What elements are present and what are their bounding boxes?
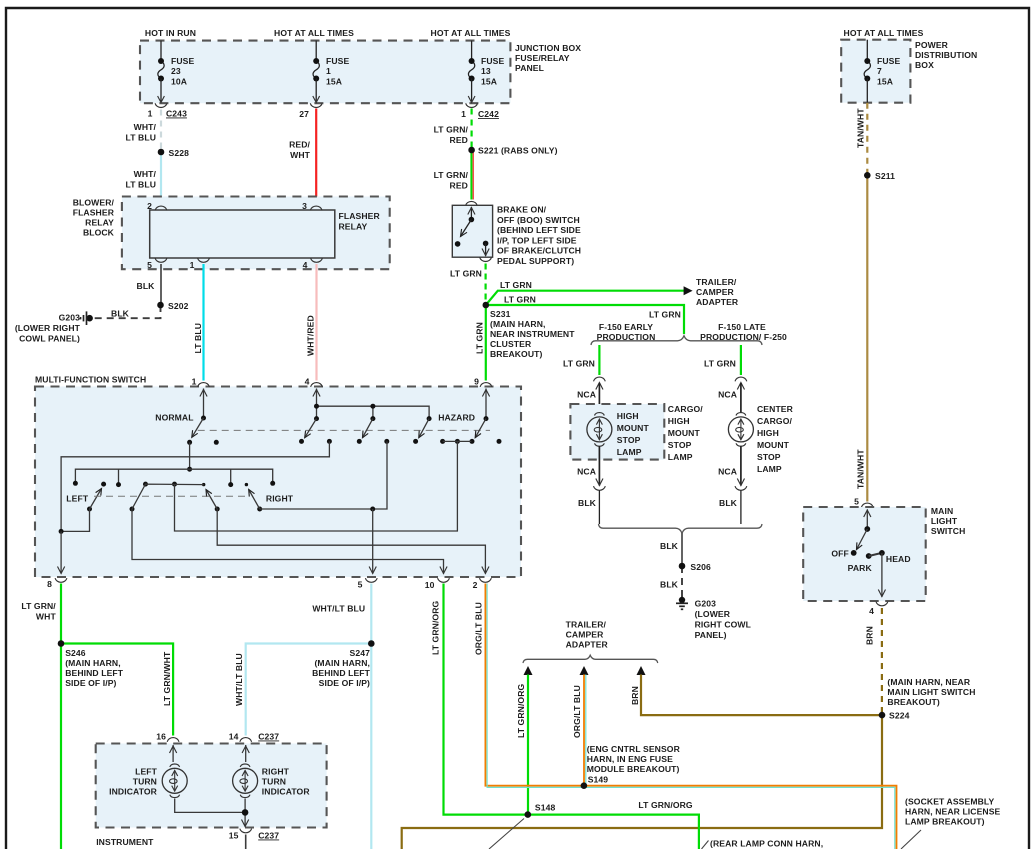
wire cluster pin15 to bottom (245, 835, 247, 849)
MFS hazard switch from pin9 (485, 389, 487, 419)
svg-text:LAMP BREAKOUT): LAMP BREAKOUT) (905, 817, 985, 827)
MFS normal switch from pin1 (203, 389, 205, 419)
F-150 production split brace (591, 336, 762, 345)
MFS pin 8 (55, 578, 67, 582)
svg-text:TRAILER/: TRAILER/ (696, 277, 737, 287)
svg-text:BRN: BRN (630, 686, 640, 705)
wire BRN S224 down and left to bottom (402, 715, 882, 849)
svg-text:LT BLU: LT BLU (125, 133, 156, 143)
wire BLK left lamp to brace (598, 491, 600, 525)
svg-text:LT BLU: LT BLU (125, 180, 156, 190)
wire ORG/LT BLU adapter arrow to S149 (583, 675, 585, 786)
svg-text:F-150 LATE: F-150 LATE (718, 322, 766, 332)
svg-text:LEFT: LEFT (66, 493, 89, 503)
svg-text:C242: C242 (478, 109, 499, 119)
svg-text:MOUNT: MOUNT (668, 428, 701, 438)
MFS wire to pin 8 exit (60, 531, 62, 573)
MFS wire middle to pin10 (132, 509, 444, 574)
svg-text:16: 16 (156, 732, 166, 742)
inline connector (left lamp) (594, 377, 606, 381)
MFS pin 2 (480, 578, 492, 582)
svg-text:BREAKOUT): BREAKOUT) (887, 697, 939, 707)
wire LT GRN to high mount stop lamp (598, 345, 600, 375)
svg-text:STOP: STOP (617, 435, 641, 445)
wire RED/WHT fuse1 to relay pin3 (315, 109, 317, 205)
svg-text:SWITCH: SWITCH (931, 526, 966, 536)
svg-text:C243: C243 (166, 109, 187, 119)
svg-text:PRODUCTION/ F-250: PRODUCTION/ F-250 (700, 332, 787, 342)
cluster pin 15 (240, 829, 252, 833)
svg-text:HARN, IN ENG FUSE: HARN, IN ENG FUSE (587, 754, 673, 764)
svg-text:S211: S211 (875, 171, 895, 181)
splice S149 (581, 782, 588, 789)
brake on/off (BOO) switch (466, 201, 478, 205)
wire WHT/LT BLU S228 to relay pin2 (160, 152, 162, 205)
svg-text:FUSE: FUSE (877, 56, 900, 66)
wire BRN adapter arrow to S224 (641, 675, 882, 716)
svg-text:G203: G203 (59, 313, 81, 323)
svg-text:BLK: BLK (719, 498, 738, 508)
svg-text:NCA: NCA (577, 390, 596, 400)
MFS junction to pin5 (370, 507, 375, 512)
svg-text:S247: S247 (350, 648, 371, 658)
svg-text:FUSE/RELAY: FUSE/RELAY (515, 53, 570, 63)
svg-text:14: 14 (229, 732, 239, 742)
svg-text:(REAR LAMP CONN HARN,: (REAR LAMP CONN HARN, (710, 839, 823, 849)
svg-text:(MAIN HARN,: (MAIN HARN, (490, 319, 546, 329)
svg-text:BRAKE ON/: BRAKE ON/ (497, 205, 547, 215)
svg-text:S206: S206 (690, 562, 711, 572)
wire BLK S202 to G203 (dashed) (92, 305, 161, 318)
svg-text:LT GRN/WHT: LT GRN/WHT (162, 651, 172, 706)
svg-text:RED: RED (450, 135, 468, 145)
svg-text:15A: 15A (481, 77, 497, 87)
wire WHT/LT BLU fuse23 to S228 (160, 110, 162, 153)
svg-text:PEDAL SUPPORT): PEDAL SUPPORT) (497, 256, 574, 266)
svg-text:FLASHER: FLASHER (73, 208, 115, 218)
blower/flasher relay block (122, 197, 390, 270)
svg-text:4: 4 (305, 377, 310, 387)
wire ORG/LT BLU MFS pin2 to S149 line to bottom right (485, 584, 896, 849)
svg-text:CAMPER: CAMPER (566, 630, 605, 640)
svg-text:SIDE OF I/P): SIDE OF I/P) (65, 678, 116, 688)
wire LT GRN/RED S221 to BOO switch (470, 150, 472, 200)
splice S228 (158, 149, 165, 156)
svg-text:S221 (RABS ONLY): S221 (RABS ONLY) (478, 146, 558, 156)
svg-text:(LOWER RIGHT: (LOWER RIGHT (15, 323, 81, 333)
wire LT GRN S231 to trailer/camper adapter arrow (486, 291, 686, 305)
svg-text:BEHIND LEFT: BEHIND LEFT (312, 668, 371, 678)
svg-text:5: 5 (854, 497, 859, 507)
svg-text:15: 15 (229, 831, 239, 841)
svg-text:BLK: BLK (111, 309, 130, 319)
svg-text:FUSE: FUSE (326, 56, 349, 66)
splice S148 (525, 811, 532, 818)
svg-text:23: 23 (171, 66, 181, 76)
left turn indicator lamp (172, 745, 174, 762)
inline connector (left lamp bottom) (596, 479, 603, 486)
wire NCA below left lamp (598, 446, 600, 486)
svg-text:OFF: OFF (831, 549, 848, 559)
svg-text:2: 2 (473, 580, 478, 590)
svg-text:MULTI-FUNCTION SWITCH: MULTI-FUNCTION SWITCH (35, 375, 146, 385)
svg-text:(MAIN HARN,: (MAIN HARN, (314, 658, 370, 668)
wire WHT/LT BLU S247 to bottom edge (370, 644, 372, 849)
svg-text:LT GRN/ORG: LT GRN/ORG (638, 800, 693, 810)
wire LT GRN/WHT S246 to bottom edge (60, 644, 62, 849)
relay pin 2 (155, 206, 167, 210)
svg-text:5: 5 (147, 260, 152, 270)
svg-text:TURN: TURN (133, 777, 157, 787)
MFS wire normal contact to line C (189, 442, 191, 469)
svg-text:HIGH: HIGH (757, 428, 779, 438)
svg-text:WHT: WHT (290, 150, 311, 160)
svg-text:RELAY: RELAY (339, 222, 368, 232)
svg-text:INDICATOR: INDICATOR (109, 787, 158, 797)
MFS wire right switch to contact (260, 441, 387, 509)
splice S206 (679, 563, 686, 570)
svg-text:PANEL): PANEL) (695, 630, 727, 640)
svg-text:MAIN: MAIN (931, 506, 953, 516)
MFS gang dashed line (bottom) (94, 495, 246, 497)
wire WHT/RED relay pin4 to MFS pin4 (315, 264, 317, 381)
svg-text:HIGH: HIGH (668, 416, 690, 426)
MFS wire middle to pin2 (217, 509, 485, 574)
svg-text:WHT: WHT (36, 612, 57, 622)
svg-text:(LOWER: (LOWER (695, 609, 731, 619)
svg-text:POWER: POWER (915, 40, 949, 50)
svg-text:LT GRN/ORG: LT GRN/ORG (516, 683, 526, 738)
svg-text:S148: S148 (535, 803, 556, 813)
multi-function switch box (35, 387, 521, 578)
cluster lamp join wire (175, 799, 245, 813)
svg-text:(MAIN HARN, NEAR: (MAIN HARN, NEAR (887, 677, 970, 687)
svg-text:1: 1 (190, 260, 195, 270)
svg-text:NCA: NCA (577, 467, 596, 477)
svg-text:ADAPTER: ADAPTER (696, 297, 739, 307)
wire LT GRN/RED C242 to S221 (dashed) (471, 109, 473, 151)
svg-text:OF BRAKE/CLUTCH: OF BRAKE/CLUTCH (497, 246, 581, 256)
svg-text:LT GRN: LT GRN (504, 295, 536, 305)
svg-text:1: 1 (192, 377, 197, 387)
svg-text:C237: C237 (258, 732, 279, 742)
svg-text:BRN: BRN (865, 626, 875, 645)
svg-text:WHT/LT BLU: WHT/LT BLU (234, 653, 244, 706)
MFS contact dots row (327, 439, 332, 444)
svg-text:LIGHT: LIGHT (931, 516, 958, 526)
svg-text:BEHIND LEFT: BEHIND LEFT (65, 668, 124, 678)
svg-text:MAIN LIGHT SWITCH: MAIN LIGHT SWITCH (887, 687, 975, 697)
svg-text:8: 8 (47, 579, 52, 589)
svg-text:S224: S224 (889, 711, 910, 721)
svg-text:LT GRN: LT GRN (475, 322, 485, 354)
svg-text:FUSE: FUSE (171, 56, 194, 66)
svg-text:BLK: BLK (137, 281, 156, 291)
main light switch internal (866, 510, 868, 530)
svg-text:PARK: PARK (848, 563, 873, 573)
svg-text:BREAKOUT): BREAKOUT) (490, 349, 542, 359)
MFS pin 9 (480, 383, 492, 387)
svg-text:RIGHT: RIGHT (266, 493, 294, 503)
svg-text:LT GRN/: LT GRN/ (21, 601, 56, 611)
svg-text:WHT/RED: WHT/RED (306, 315, 316, 356)
svg-text:LEFT: LEFT (135, 767, 158, 777)
junction box fuse/relay panel (140, 41, 510, 104)
svg-text:PRODUCTION: PRODUCTION (597, 332, 656, 342)
svg-text:I/P, TOP LEFT SIDE: I/P, TOP LEFT SIDE (497, 235, 577, 245)
MFS wire middle to hazard contact (175, 441, 458, 531)
wire WHT/LT BLU MFS pin5 to S247 (370, 584, 372, 644)
svg-text:INDICATOR: INDICATOR (262, 787, 311, 797)
MFS middle contact structure (130, 507, 135, 512)
splice S202 (157, 302, 164, 309)
instrument cluster box (167, 738, 179, 742)
main light switch pin 4 (876, 602, 888, 606)
flasher relay (150, 210, 335, 258)
stop lamp ground gather brace (599, 524, 763, 533)
right turn indicator lamp (245, 745, 247, 762)
connector C242 pin 1 (466, 103, 478, 107)
MFS pin 1 (198, 383, 210, 387)
fuse 23 10A (160, 41, 162, 61)
svg-text:CAMPER: CAMPER (696, 287, 735, 297)
splice S246 (58, 640, 65, 647)
center cargo/high mount stop lamp (728, 417, 753, 442)
relay pin 3 (310, 206, 322, 210)
splice S247 (368, 640, 375, 647)
svg-text:LT GRN/: LT GRN/ (434, 125, 469, 135)
MFS gang dashed line (top) (198, 429, 490, 431)
relay pin 5 (155, 258, 167, 262)
svg-text:NCA: NCA (718, 467, 737, 477)
svg-text:RIGHT COWL: RIGHT COWL (695, 620, 751, 630)
svg-text:(SOCKET ASSEMBLY: (SOCKET ASSEMBLY (905, 797, 994, 807)
wire LT GRN/ORG MFS pin10 to S148 to bottom (444, 584, 699, 849)
svg-text:BLK: BLK (660, 541, 679, 551)
svg-text:15A: 15A (326, 77, 342, 87)
svg-text:LT GRN: LT GRN (500, 280, 532, 290)
wire BLK relay pin5 to S202 (160, 264, 162, 305)
svg-text:5: 5 (358, 580, 363, 590)
svg-text:MOUNT: MOUNT (617, 423, 650, 433)
svg-text:HOT AT ALL TIMES: HOT AT ALL TIMES (844, 28, 924, 38)
arrow LT GRN/ORG to adapter (524, 666, 533, 675)
relay pin 4 (311, 258, 323, 262)
svg-text:G203: G203 (695, 599, 717, 609)
callout line S148 (489, 819, 524, 849)
svg-text:TRAILER/: TRAILER/ (566, 620, 607, 630)
wire LT BLU relay pin1 to MFS pin1 (202, 264, 204, 381)
svg-text:HAZARD: HAZARD (438, 412, 475, 422)
svg-text:F-150 EARLY: F-150 EARLY (599, 322, 653, 332)
svg-text:JUNCTION BOX: JUNCTION BOX (515, 43, 581, 53)
wire LT GRN S231 to F-150 brace (486, 305, 684, 334)
svg-text:RELAY: RELAY (85, 218, 114, 228)
svg-text:STOP: STOP (668, 440, 692, 450)
wire LT GRN to center stop lamp (740, 345, 742, 375)
svg-text:10: 10 (425, 580, 435, 590)
MFS contact dot (214, 440, 219, 445)
svg-text:LAMP: LAMP (668, 452, 693, 462)
svg-text:STOP: STOP (757, 452, 781, 462)
svg-text:1: 1 (461, 109, 466, 119)
svg-text:LAMP: LAMP (757, 464, 782, 474)
svg-text:WHT/LT BLU: WHT/LT BLU (312, 604, 365, 614)
svg-text:S246: S246 (65, 648, 86, 658)
svg-text:BLOCK: BLOCK (83, 228, 115, 238)
svg-text:OFF (BOO) SWITCH: OFF (BOO) SWITCH (497, 215, 580, 225)
relay pin 1 (198, 258, 210, 262)
svg-text:1: 1 (326, 66, 331, 76)
splice S224 (879, 712, 886, 719)
svg-text:HOT AT ALL TIMES: HOT AT ALL TIMES (274, 28, 354, 38)
svg-text:NEAR INSTRUMENT: NEAR INSTRUMENT (490, 329, 575, 339)
svg-text:CARGO/: CARGO/ (668, 404, 703, 414)
svg-text:S149: S149 (588, 775, 609, 785)
svg-text:27: 27 (299, 109, 309, 119)
svg-text:BLK: BLK (660, 580, 679, 590)
svg-text:S202: S202 (168, 301, 189, 311)
wire BLK S206 to G203 (dashed) (681, 566, 683, 597)
svg-text:CARGO/: CARGO/ (757, 416, 792, 426)
wire TAN/WHT fuse7 to S211 (dashed) (866, 103, 868, 176)
wire BLK brace to S206 (681, 533, 683, 566)
svg-text:S231: S231 (490, 309, 511, 319)
inline connector (right lamp) (735, 377, 747, 381)
svg-text:DISTRIBUTION: DISTRIBUTION (915, 50, 977, 60)
svg-text:C237: C237 (258, 831, 279, 841)
arrow BRN to adapter (637, 666, 646, 675)
wire BRN pin4 to S224 (dashed) (881, 608, 883, 715)
svg-text:NORMAL: NORMAL (155, 412, 193, 422)
svg-text:BLK: BLK (578, 498, 597, 508)
fuse 13 15A (471, 41, 473, 61)
svg-text:BOX: BOX (915, 60, 934, 70)
main light switch box (861, 503, 873, 507)
wire NCA to lamp (598, 383, 600, 413)
connector pin 27 (310, 103, 322, 107)
svg-text:CLUSTER: CLUSTER (490, 339, 532, 349)
svg-text:(BEHIND LEFT SIDE: (BEHIND LEFT SIDE (497, 225, 581, 235)
ground G203 lower right cowl panel (rear) (679, 597, 685, 603)
splice S231 (483, 302, 490, 309)
svg-text:MOUNT: MOUNT (757, 440, 790, 450)
fuse 1 15A (315, 41, 317, 61)
MFS pin 10 (438, 578, 450, 582)
svg-text:WHT/: WHT/ (134, 169, 157, 179)
svg-text:13: 13 (481, 66, 491, 76)
svg-text:S228: S228 (169, 148, 190, 158)
wire NCA to center lamp (740, 383, 742, 413)
svg-text:HEAD: HEAD (886, 554, 911, 564)
svg-text:2: 2 (147, 201, 152, 211)
splice S221 (468, 147, 475, 154)
svg-text:PANEL: PANEL (515, 63, 544, 73)
svg-text:WHT/: WHT/ (134, 122, 157, 132)
svg-text:LT GRN/ORG: LT GRN/ORG (431, 600, 441, 655)
wire LT GRN BOO to S231 (dashed) (485, 264, 487, 306)
svg-text:LT BLU: LT BLU (193, 323, 203, 354)
svg-text:LAMP: LAMP (617, 447, 642, 457)
wire LT GRN S231 to MFS pin9 (485, 305, 487, 381)
svg-text:BLOWER/: BLOWER/ (73, 198, 115, 208)
MFS line B pin8 bus (61, 441, 329, 531)
svg-text:7: 7 (877, 66, 882, 76)
arrow ORG/LT BLU to adapter (580, 666, 589, 675)
MFS pin 5 (365, 578, 377, 582)
svg-text:TAN/WHT: TAN/WHT (856, 108, 866, 148)
svg-text:HARN, NEAR LICENSE: HARN, NEAR LICENSE (905, 807, 1001, 817)
svg-text:ORG/LT BLU: ORG/LT BLU (474, 602, 484, 655)
svg-text:LT GRN: LT GRN (704, 359, 736, 369)
svg-text:4: 4 (303, 260, 308, 270)
svg-text:TURN: TURN (262, 777, 286, 787)
svg-text:COWL PANEL): COWL PANEL) (19, 334, 80, 344)
svg-text:NCA: NCA (718, 390, 737, 400)
svg-text:MODULE BREAKOUT): MODULE BREAKOUT) (587, 764, 680, 774)
wire NCA below center lamp (740, 446, 742, 486)
svg-text:LT GRN: LT GRN (649, 310, 681, 320)
svg-text:HOT AT ALL TIMES: HOT AT ALL TIMES (431, 28, 511, 38)
svg-text:HIGH: HIGH (617, 411, 639, 421)
fuse 7 15A (866, 40, 868, 61)
svg-text:9: 9 (474, 377, 479, 387)
svg-text:HOT IN RUN: HOT IN RUN (145, 28, 196, 38)
wire LT GRN/WHT S246 to cluster pin16 (61, 644, 173, 736)
ground G203 lower right cowl panel (86, 315, 93, 322)
svg-text:INSTRUMENT: INSTRUMENT (96, 837, 154, 847)
svg-text:4: 4 (869, 606, 874, 616)
splice S211 (864, 172, 871, 179)
wire BLK center lamp to brace (740, 491, 742, 525)
MFS line C (75, 469, 272, 484)
wire TAN/WHT S211 to main light switch pin5 (866, 175, 868, 501)
svg-text:RIGHT: RIGHT (262, 767, 290, 777)
svg-text:ORG/LT BLU: ORG/LT BLU (572, 685, 582, 738)
svg-text:FLASHER: FLASHER (339, 211, 381, 221)
high mount stop lamp (587, 417, 612, 442)
svg-text:(MAIN HARN,: (MAIN HARN, (65, 658, 121, 668)
svg-text:3: 3 (302, 201, 307, 211)
inline connector (right lamp bottom) (737, 479, 744, 486)
svg-text:LT GRN/: LT GRN/ (434, 170, 469, 180)
svg-text:1: 1 (148, 109, 153, 119)
svg-text:FUSE: FUSE (481, 56, 504, 66)
svg-text:15A: 15A (877, 77, 893, 87)
svg-text:ADAPTER: ADAPTER (566, 640, 609, 650)
svg-text:LT GRN: LT GRN (563, 359, 595, 369)
MFS pin4 bus and switch arms (317, 389, 430, 419)
wire WHT/LT BLU S247 to cluster pin14 (246, 644, 372, 736)
svg-text:CENTER: CENTER (757, 404, 794, 414)
svg-text:LT GRN: LT GRN (450, 269, 482, 279)
svg-text:TAN/WHT: TAN/WHT (856, 449, 866, 489)
svg-text:(ENG CNTRL SENSOR: (ENG CNTRL SENSOR (587, 744, 681, 754)
wire LT GRN/WHT MFS pin8 to S246 (60, 584, 62, 644)
svg-text:10A: 10A (171, 77, 187, 87)
svg-text:RED/: RED/ (289, 140, 310, 150)
power distribution box (841, 40, 910, 103)
MFS pin 4 (311, 383, 323, 387)
connector C243 pin 1 (155, 103, 167, 107)
high mount stop lamp box (570, 404, 664, 460)
svg-text:RED: RED (450, 181, 468, 191)
wire LT GRN/ORG adapter arrow to S148 (527, 675, 529, 815)
svg-text:SIDE OF I/P): SIDE OF I/P) (319, 678, 370, 688)
